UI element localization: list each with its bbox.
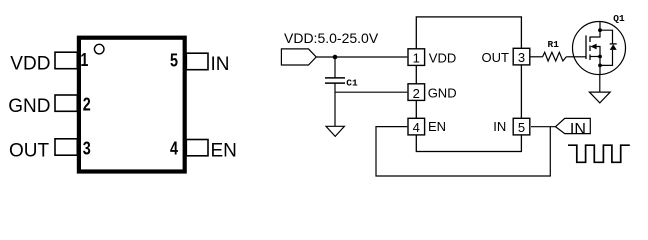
- wire R1 to MOSFET gate: [566, 56, 574, 58]
- body diode triangle: [610, 44, 617, 50]
- package U (SOT-23-5 outline) body: [79, 38, 185, 172]
- Q1 drain junction dot: [598, 28, 602, 32]
- pin 1 indicator circle: [94, 44, 104, 54]
- svg-text:IN: IN: [570, 121, 586, 138]
- Q1 channel segment body: [589, 46, 591, 52]
- IC pin 2 square: [408, 84, 425, 101]
- svg-text:VDD:5.0-25.0V: VDD:5.0-25.0V: [284, 30, 379, 46]
- IN input flag: [556, 118, 591, 133]
- Q1 gate bar: [585, 35, 587, 59]
- capacitor C1 top plate: [325, 77, 345, 79]
- IC pin 5 square: [513, 118, 530, 135]
- Q1 source tap: [590, 56, 600, 58]
- Q1 source down inside circle: [599, 57, 601, 75]
- svg-text:5: 5: [170, 49, 178, 70]
- pin 5 pad: [186, 53, 208, 69]
- svg-text:3: 3: [518, 50, 525, 65]
- VDD supply flag: [281, 49, 316, 65]
- Q1 source junction dot: [598, 55, 602, 59]
- svg-text:OUT: OUT: [9, 140, 50, 161]
- Q1 drain tap: [590, 22, 600, 37]
- svg-text:VDD: VDD: [429, 51, 456, 66]
- Q1 body arrow: [590, 44, 596, 50]
- svg-text:1: 1: [80, 49, 88, 70]
- svg-text:EN: EN: [211, 140, 237, 161]
- wire EN loop (pin4 to IN net): [376, 127, 550, 176]
- wire VDD flag to pin1: [316, 56, 407, 58]
- svg-text:1: 1: [413, 51, 420, 66]
- transistor Q1 circle: [573, 22, 626, 75]
- svg-text:3: 3: [83, 137, 91, 158]
- svg-text:EN: EN: [428, 119, 446, 134]
- Q1 diode junction dot: [598, 64, 602, 68]
- Q1 gate wire: [575, 56, 587, 58]
- Q1 channel segment source: [589, 55, 591, 61]
- svg-text:4: 4: [170, 137, 179, 158]
- Q1 channel segment drain: [589, 37, 591, 43]
- svg-text:IN: IN: [211, 54, 230, 75]
- body diode anode line: [600, 50, 613, 66]
- resistor R1 zigzag: [543, 52, 567, 61]
- svg-text:OUT: OUT: [482, 50, 510, 65]
- svg-text:C1: C1: [346, 77, 358, 88]
- wire GND tee to pin2: [335, 91, 407, 93]
- pin 1 pad: [55, 52, 77, 68]
- IC pin 1 square: [408, 49, 425, 66]
- Q1 drain to diode cathode: [600, 30, 613, 44]
- svg-text:5: 5: [518, 120, 525, 135]
- junction dot VDD/C1: [333, 55, 338, 60]
- wire Q1 source to ground: [599, 75, 601, 93]
- svg-text:GND: GND: [428, 86, 457, 101]
- wire junction to C1 top: [334, 57, 336, 78]
- pin 4 pad: [186, 140, 208, 156]
- wire C1 bottom to ground: [334, 83, 336, 126]
- svg-text:4: 4: [413, 120, 420, 135]
- ground symbol under C1: [326, 126, 344, 136]
- body diode cathode bar: [610, 43, 617, 45]
- svg-text:2: 2: [413, 86, 420, 101]
- svg-text:Q1: Q1: [613, 13, 625, 24]
- svg-text:VDD: VDD: [10, 53, 50, 74]
- wire pin5 to IN flag: [531, 126, 556, 128]
- wire OUT pin3 to R1: [531, 56, 543, 58]
- square wave symbol: [568, 145, 630, 162]
- svg-text:2: 2: [83, 94, 91, 115]
- svg-text:GND: GND: [8, 96, 50, 117]
- Q1 body tap: [596, 47, 600, 57]
- ground symbol under Q1: [589, 92, 610, 103]
- IC pin 4 square: [408, 118, 425, 135]
- IC block body: [416, 17, 521, 152]
- IC pin 3 square: [513, 48, 530, 65]
- svg-text:R1: R1: [548, 39, 560, 50]
- pin 3 pad: [55, 139, 77, 155]
- pin 2 pad: [55, 95, 77, 111]
- svg-text:IN: IN: [493, 119, 506, 134]
- capacitor C1 bottom plate: [325, 82, 345, 84]
